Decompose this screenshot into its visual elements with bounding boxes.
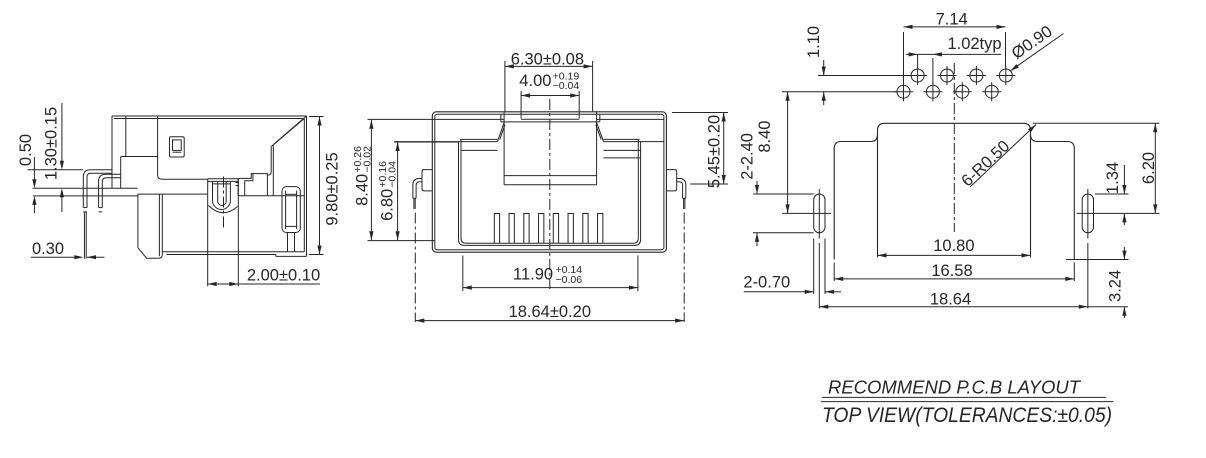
svg-text:−0.04: −0.04 xyxy=(387,161,399,188)
svg-text:1.10: 1.10 xyxy=(805,26,823,58)
svg-text:6.80: 6.80 xyxy=(379,189,397,221)
svg-text:1.30±0.15: 1.30±0.15 xyxy=(43,107,61,180)
svg-text:7.14: 7.14 xyxy=(936,11,968,29)
svg-text:Ø0.90: Ø0.90 xyxy=(1008,22,1055,63)
svg-text:6.20: 6.20 xyxy=(1140,152,1158,184)
svg-text:18.64±0.20: 18.64±0.20 xyxy=(509,303,591,321)
svg-text:TOP VIEW(TOLERANCES:±0.05): TOP VIEW(TOLERANCES:±0.05) xyxy=(822,404,1112,427)
svg-text:−0.06: −0.06 xyxy=(556,274,583,286)
svg-text:6.30±0.08: 6.30±0.08 xyxy=(511,50,584,68)
svg-text:10.80: 10.80 xyxy=(933,237,974,255)
svg-text:0.50: 0.50 xyxy=(17,134,35,166)
svg-text:11.90: 11.90 xyxy=(513,266,553,284)
svg-text:9.80±0.25: 9.80±0.25 xyxy=(324,152,342,225)
svg-text:1.34: 1.34 xyxy=(1104,162,1122,194)
svg-text:2-0.70: 2-0.70 xyxy=(743,274,790,292)
svg-text:8.40: 8.40 xyxy=(354,174,372,206)
svg-text:−0.02: −0.02 xyxy=(362,146,374,173)
svg-text:−0.04: −0.04 xyxy=(553,80,580,92)
svg-text:1.02typ: 1.02typ xyxy=(947,35,1001,53)
svg-text:2-2.40: 2-2.40 xyxy=(738,133,756,180)
svg-text:RECOMMEND P.C.B LAYOUT: RECOMMEND P.C.B LAYOUT xyxy=(828,376,1082,397)
svg-text:3.24: 3.24 xyxy=(1106,270,1124,302)
svg-text:0.30: 0.30 xyxy=(32,240,64,258)
svg-text:18.64: 18.64 xyxy=(930,290,971,308)
svg-text:4.00: 4.00 xyxy=(519,72,551,90)
svg-text:16.58: 16.58 xyxy=(931,262,972,280)
svg-text:8.40: 8.40 xyxy=(756,121,774,153)
svg-text:2.00±0.10: 2.00±0.10 xyxy=(247,267,320,285)
svg-text:6-R0.50: 6-R0.50 xyxy=(958,137,1013,190)
svg-text:5.45±0.20: 5.45±0.20 xyxy=(705,115,723,188)
